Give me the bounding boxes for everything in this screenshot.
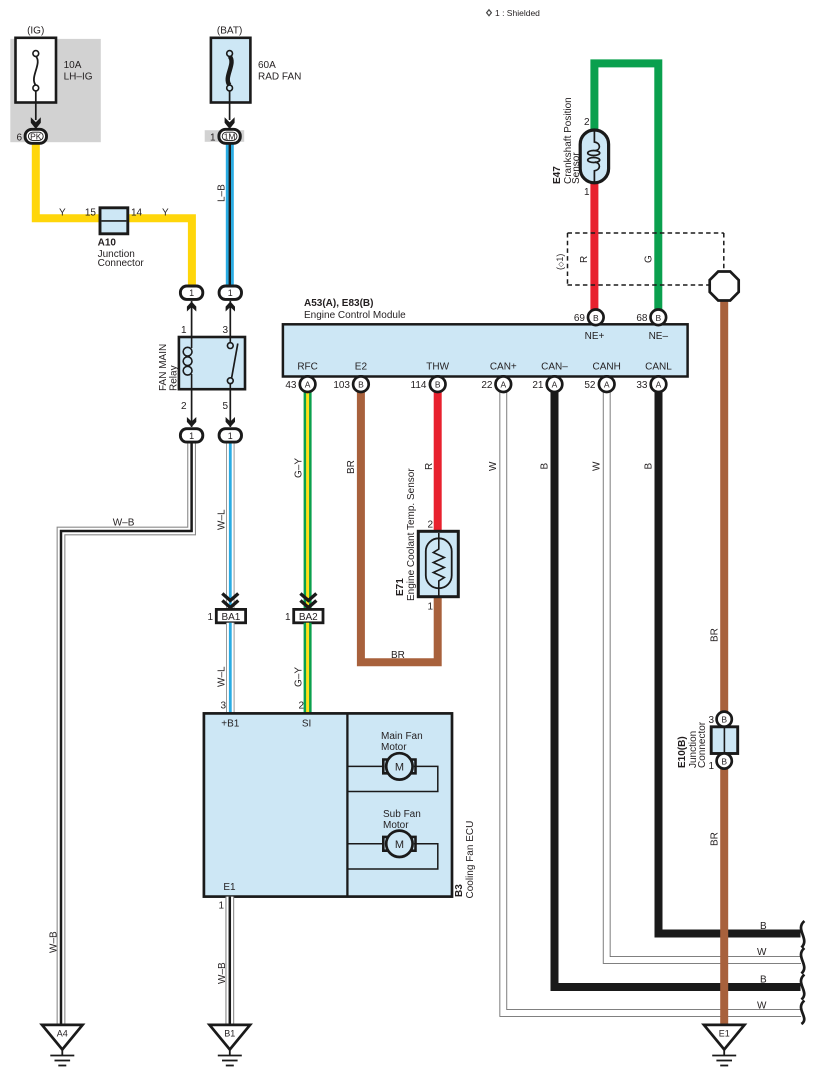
svg-text:BR: BR xyxy=(710,832,721,846)
relay coil xyxy=(183,338,192,389)
wire relay pin 5 lead xyxy=(229,389,231,427)
break symbol CANL right xyxy=(801,921,804,948)
svg-text:B: B xyxy=(435,380,441,390)
svg-text:14: 14 xyxy=(131,208,143,219)
engine coolant temp sensor E71 xyxy=(418,531,458,596)
svg-text:B1: B1 xyxy=(224,1029,235,1039)
svg-text:E1: E1 xyxy=(223,882,236,893)
svg-text:B: B xyxy=(760,921,767,932)
connector BA2 xyxy=(294,594,323,624)
wire G-Y from BA2 to cooling fan ECU SI xyxy=(304,623,312,714)
svg-text:Main Fan: Main Fan xyxy=(381,731,423,742)
svg-text:1M: 1M xyxy=(224,131,236,141)
pin circle 43 A (RFC) xyxy=(285,376,315,392)
svg-text:(BAT): (BAT) xyxy=(217,26,242,37)
pin circle 103 B (E2) xyxy=(333,376,368,392)
wire W-B from ECU E1 to ground B1 xyxy=(225,897,234,1025)
gray background block (IG fuse area) xyxy=(10,39,101,142)
svg-text:Relay: Relay xyxy=(169,365,180,391)
svg-text:Connector: Connector xyxy=(697,721,708,768)
svg-text:A: A xyxy=(656,380,662,390)
svg-text:2: 2 xyxy=(584,117,590,128)
svg-text:NE+: NE+ xyxy=(585,331,605,342)
ECM title A53(A), E83(B) xyxy=(304,298,406,321)
arrow down into oval (pin2) xyxy=(187,417,196,427)
svg-text:BR: BR xyxy=(346,460,357,474)
svg-text:103: 103 xyxy=(333,380,350,391)
svg-text:1: 1 xyxy=(218,901,224,912)
svg-text:33: 33 xyxy=(636,380,648,391)
pin circle 68 B (NE-) xyxy=(636,310,666,326)
svg-text:G–Y: G–Y xyxy=(294,667,305,687)
svg-text:BR: BR xyxy=(391,650,405,661)
wire labels W B W B vertical xyxy=(488,461,655,471)
svg-text:22: 22 xyxy=(481,380,493,391)
svg-text:R: R xyxy=(579,256,590,263)
svg-text:A: A xyxy=(500,380,506,390)
svg-text:B: B xyxy=(721,715,727,725)
relay switch xyxy=(227,338,237,389)
crankshaft position sensor E47 xyxy=(580,130,608,183)
svg-text:W–L: W–L xyxy=(217,509,228,530)
main fan motor circuit wires xyxy=(349,766,438,791)
shield octagon node xyxy=(710,272,739,301)
junction connector A10 xyxy=(100,208,128,234)
svg-text:114: 114 xyxy=(411,380,427,391)
arrow into PK xyxy=(31,117,41,129)
arrow down into oval (pin5) xyxy=(226,417,235,427)
svg-text:Sub Fan: Sub Fan xyxy=(383,809,421,820)
wire BR shield drain (octagon to ground E1) xyxy=(720,296,728,1025)
svg-text:A: A xyxy=(604,380,610,390)
wire fuse IG to connector PK xyxy=(35,91,37,120)
pin circle 33 A (CANL) xyxy=(636,376,666,392)
pin circle 22 A (CAN+) xyxy=(481,376,511,392)
svg-text:(◇1): (◇1) xyxy=(555,254,565,270)
svg-text:G: G xyxy=(644,255,655,263)
label E47 Crankshaft Position Sensor xyxy=(552,97,582,184)
svg-text:A4: A4 xyxy=(57,1029,68,1039)
svg-text:Y: Y xyxy=(162,208,169,219)
svg-text:2: 2 xyxy=(298,701,304,712)
node oval 1 above relay pin 1 xyxy=(180,286,202,299)
svg-text:Engine Control Module: Engine Control Module xyxy=(304,310,406,321)
svg-text:Sensor: Sensor xyxy=(571,152,582,184)
pin circle 52 A (CANH) xyxy=(584,376,614,392)
svg-text:W–B: W–B xyxy=(217,962,228,984)
fuse 10A LH-IG xyxy=(16,38,57,103)
wire B CANL (pin 33 to right edge) xyxy=(659,390,801,934)
shield dashed box xyxy=(568,233,724,285)
svg-text:L–B: L–B xyxy=(217,184,228,202)
svg-text:3: 3 xyxy=(222,325,228,336)
svg-text:CANH: CANH xyxy=(593,362,621,373)
relay FAN MAIN xyxy=(179,337,245,389)
svg-text:B: B xyxy=(358,380,364,390)
svg-text:B: B xyxy=(760,975,767,986)
break symbol CAN+ right xyxy=(801,1001,804,1025)
sub fan motor M2 xyxy=(383,831,415,857)
svg-text:1: 1 xyxy=(228,288,233,298)
wire fuse BAT to connector 1M xyxy=(229,91,231,120)
svg-text:3: 3 xyxy=(220,701,226,712)
svg-text:M: M xyxy=(395,839,404,851)
svg-text:1: 1 xyxy=(427,602,433,613)
pin circle 114 B (THW) xyxy=(411,376,446,392)
pin circle 69 B (NE+) xyxy=(574,310,604,326)
svg-text:RFC: RFC xyxy=(297,362,318,373)
svg-text:(IG): (IG) xyxy=(27,26,44,37)
svg-text:5: 5 xyxy=(222,401,228,412)
main fan motor label xyxy=(381,731,423,753)
label B3 Cooling Fan ECU xyxy=(454,821,476,899)
node oval 1 below relay pin 5 xyxy=(219,429,241,442)
cooling fan ECU B3 box xyxy=(204,713,452,896)
wire relay pin 3 lead xyxy=(229,301,231,345)
svg-text:Motor: Motor xyxy=(383,820,409,831)
svg-text:1: 1 xyxy=(181,325,187,336)
svg-text:E47: E47 xyxy=(552,166,563,184)
svg-text:B: B xyxy=(644,463,655,470)
svg-text:G–Y: G–Y xyxy=(294,458,305,478)
svg-text:RAD FAN: RAD FAN xyxy=(258,72,301,83)
wire W-B from relay pin 2 to ground A4 xyxy=(61,435,192,1025)
wire W CANH (pin 52 to right edge) xyxy=(607,390,801,960)
svg-text:W: W xyxy=(757,1001,767,1012)
pin circle 21 A (CAN-) xyxy=(532,376,562,392)
svg-text:R: R xyxy=(424,463,435,470)
gray background strip (1M connector) xyxy=(205,130,245,142)
svg-text:1: 1 xyxy=(210,132,216,143)
arrow up into oval (pin3) xyxy=(226,302,235,312)
svg-text:W–L: W–L xyxy=(217,666,228,687)
wire Y (IG to junction A10 to relay) xyxy=(36,140,192,290)
svg-text:10A: 10A xyxy=(64,60,82,71)
svg-text:BA1: BA1 xyxy=(221,612,240,623)
svg-text:1: 1 xyxy=(584,187,590,198)
arrow up into oval (pin1) xyxy=(187,302,196,312)
svg-text:1: 1 xyxy=(189,431,194,441)
svg-text:1: 1 xyxy=(285,612,291,623)
svg-text:LH–IG: LH–IG xyxy=(64,72,93,83)
svg-text:W: W xyxy=(488,461,499,471)
svg-text:B: B xyxy=(655,313,661,323)
svg-text:FAN MAIN: FAN MAIN xyxy=(158,344,169,391)
svg-text:E10(B): E10(B) xyxy=(677,736,688,768)
svg-text:A: A xyxy=(305,380,311,390)
svg-text:SI: SI xyxy=(302,719,311,730)
svg-text:69: 69 xyxy=(574,313,586,324)
fuse value 10A LH-IG xyxy=(64,60,93,83)
node oval 1 below relay pin 2 xyxy=(180,429,202,442)
svg-text:60A: 60A xyxy=(258,60,276,71)
svg-text:+B1: +B1 xyxy=(221,719,240,730)
connector PK pin 6 xyxy=(25,129,46,143)
break symbol CANH right xyxy=(801,948,804,974)
svg-text:6: 6 xyxy=(16,132,22,143)
ECM box A53/E83 xyxy=(283,324,688,376)
wire relay pin 2 lead xyxy=(191,389,193,427)
arrow into 1M xyxy=(225,117,235,129)
wire L-B (BAT fuse to relay) xyxy=(226,140,234,290)
label E10(B) Junction Connector xyxy=(677,721,708,768)
svg-text:2: 2 xyxy=(427,520,433,531)
svg-text:15: 15 xyxy=(85,208,97,219)
svg-text:Motor: Motor xyxy=(381,742,407,753)
svg-text:W: W xyxy=(757,947,767,958)
svg-text:1: 1 xyxy=(189,288,194,298)
svg-text:A53(A), E83(B): A53(A), E83(B) xyxy=(304,298,373,309)
ground A4 xyxy=(42,1025,83,1066)
svg-text:A: A xyxy=(552,380,558,390)
svg-text:THW: THW xyxy=(426,362,449,373)
ground B1 xyxy=(210,1025,251,1066)
svg-text:1 : Shielded: 1 : Shielded xyxy=(495,8,540,18)
svg-text:CAN+: CAN+ xyxy=(490,362,517,373)
svg-text:B3: B3 xyxy=(454,884,465,897)
svg-text:1: 1 xyxy=(207,612,213,623)
svg-text:B: B xyxy=(721,756,727,766)
svg-text:BR: BR xyxy=(710,628,721,642)
node oval 1 above relay pin 3 xyxy=(219,286,241,299)
svg-text:2: 2 xyxy=(181,401,187,412)
svg-text:CAN–: CAN– xyxy=(541,362,568,373)
break symbol CAN- right xyxy=(801,975,804,1000)
svg-text:W–B: W–B xyxy=(113,518,135,529)
svg-text:A10: A10 xyxy=(98,238,117,249)
junction connector E10(B) xyxy=(717,712,732,727)
label A10 Junction Connector xyxy=(98,238,145,269)
svg-text:E2: E2 xyxy=(355,362,368,373)
svg-text:PK: PK xyxy=(30,131,42,141)
legend shielded note xyxy=(487,8,541,18)
main fan motor M1 xyxy=(383,753,415,779)
svg-text:21: 21 xyxy=(532,380,544,391)
svg-text:Engine Coolant Temp. Sensor: Engine Coolant Temp. Sensor xyxy=(406,468,417,601)
wire R (NE+ to crankshaft sensor pin 1) xyxy=(590,180,598,312)
svg-text:43: 43 xyxy=(285,380,297,391)
wire G-Y (RFC to BA2) xyxy=(304,390,312,610)
svg-text:52: 52 xyxy=(584,380,596,391)
wire W CAN+ (pin 22 to right edge) xyxy=(503,390,801,1013)
ground E1 xyxy=(704,1025,745,1066)
wire R (THW to coolant temp sensor pin 2) xyxy=(434,390,442,533)
svg-text:E1: E1 xyxy=(719,1029,730,1039)
wire W-L from BA1 to cooling fan ECU +B1 xyxy=(226,623,235,714)
svg-text:M: M xyxy=(395,761,404,773)
wire G (NE- to crankshaft sensor pin 2) xyxy=(594,63,658,312)
svg-text:B: B xyxy=(540,463,551,470)
svg-text:Y: Y xyxy=(59,208,66,219)
wire B CAN- (pin 21 to right edge) xyxy=(555,390,801,987)
wire relay pin 1 lead xyxy=(191,301,193,338)
wire W-L from relay pin 5 to BA1 xyxy=(226,435,235,610)
svg-text:NE–: NE– xyxy=(649,331,669,342)
sub fan motor circuit wires xyxy=(349,844,438,869)
svg-text:W–B: W–B xyxy=(49,931,60,953)
fuse value 60A RAD FAN xyxy=(258,60,301,83)
label FAN MAIN Relay xyxy=(158,344,180,391)
svg-text:BA2: BA2 xyxy=(299,612,318,623)
svg-text:68: 68 xyxy=(636,313,648,324)
svg-text:Connector: Connector xyxy=(98,258,145,269)
svg-text:Cooling Fan ECU: Cooling Fan ECU xyxy=(465,821,476,899)
connector 1M pin 1 xyxy=(219,129,240,143)
svg-text:W: W xyxy=(592,461,603,471)
svg-text:E71: E71 xyxy=(395,578,406,596)
wire BR (E2 to coolant temp sensor pin 1) xyxy=(361,390,438,662)
connector BA1 xyxy=(216,594,245,624)
svg-text:1: 1 xyxy=(228,431,233,441)
fuse 60A RAD FAN xyxy=(211,38,251,103)
svg-text:3: 3 xyxy=(708,715,714,726)
svg-text:1: 1 xyxy=(708,761,714,772)
svg-text:CANL: CANL xyxy=(645,362,672,373)
sub fan motor label xyxy=(383,809,421,831)
svg-text:B: B xyxy=(593,313,599,323)
label E71 Engine Coolant Temp. Sensor xyxy=(395,468,417,601)
